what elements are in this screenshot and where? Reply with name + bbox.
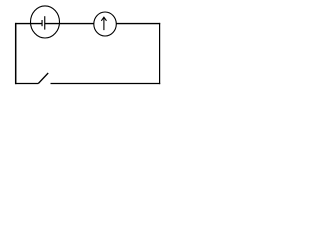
wire: battery positive plate lead to current source left terminal [45,23,94,25]
switch (open blade) [38,73,48,84]
wire: bottom run from left rail to switch pivot [15,83,38,85]
wire: bottom run from right rail to switch fixed contact [51,83,161,85]
dc voltage source (battery cell in ellipse) outline [31,6,60,38]
current source arrow (pointing up) [101,17,106,30]
wire: current source right terminal to right rail [116,23,160,25]
wire: left rail [15,23,17,84]
wire: right rail [159,23,161,84]
battery short (negative) plate [41,20,43,26]
battery long (positive) plate [44,16,46,29]
wire: top lead into battery negative plate [15,23,42,25]
current source outline (circle) [94,12,117,36]
